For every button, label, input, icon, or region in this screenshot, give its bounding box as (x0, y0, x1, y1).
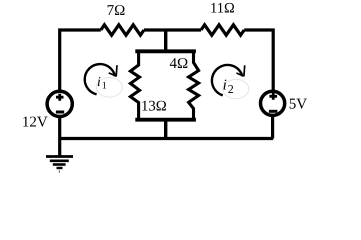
svg-text:12V: 12V (22, 114, 48, 130)
ground stem (58, 139, 61, 157)
ground bar 4 (57, 167, 63, 169)
mesh loop i2 arrowhead (236, 65, 244, 76)
svg-text:11Ω: 11Ω (210, 1, 235, 17)
svg-text:5V: 5V (289, 96, 308, 112)
wire top bar of parallel section (135, 49, 196, 53)
resistor R 11ohm (201, 25, 244, 35)
wire below V2 (271, 116, 274, 139)
ground bar 2 (50, 160, 69, 163)
resistor R 7ohm (101, 25, 144, 35)
ground bar 1 (46, 155, 73, 158)
svg-text:4Ω: 4Ω (169, 56, 188, 72)
wire bottom (60, 137, 274, 140)
wire bottom bar of parallel section (135, 118, 196, 122)
voltage source V1 12V (47, 91, 72, 116)
mesh loop i2 faint ellipse (223, 79, 249, 98)
ground tick (58, 170, 60, 173)
svg-text:7Ω: 7Ω (107, 3, 126, 19)
minus sign V2 (269, 110, 278, 113)
svg-text:2: 2 (228, 82, 234, 96)
svg-text:i: i (97, 74, 101, 89)
mesh loop i1 arrowhead (109, 65, 117, 76)
wire top-middle (144, 28, 201, 31)
wire top-right: top wire + right vertical (244, 30, 273, 90)
ground bar 3 (53, 163, 66, 166)
minus sign V1 (56, 111, 64, 114)
voltage source V2 5V (261, 91, 285, 115)
mesh loop i2 arc arrow (212, 65, 243, 95)
wire top-left: left vertical + top wire to 7ohm (60, 30, 101, 90)
resistor R 13ohm (left vertical) (130, 51, 139, 119)
svg-text:1: 1 (102, 81, 107, 92)
resistor R 4ohm (right vertical) (189, 51, 199, 119)
wire middle stub top (164, 29, 167, 52)
svg-text:i: i (223, 78, 227, 94)
svg-text:13Ω: 13Ω (141, 99, 167, 115)
wire below V1 (58, 118, 61, 139)
wire middle stub bottom (164, 120, 167, 139)
plus sign V2 (269, 93, 277, 100)
plus sign V1 (56, 94, 64, 101)
mesh loop i1 faint ellipse (96, 78, 122, 98)
mesh loop i1 arc arrow (85, 64, 115, 94)
